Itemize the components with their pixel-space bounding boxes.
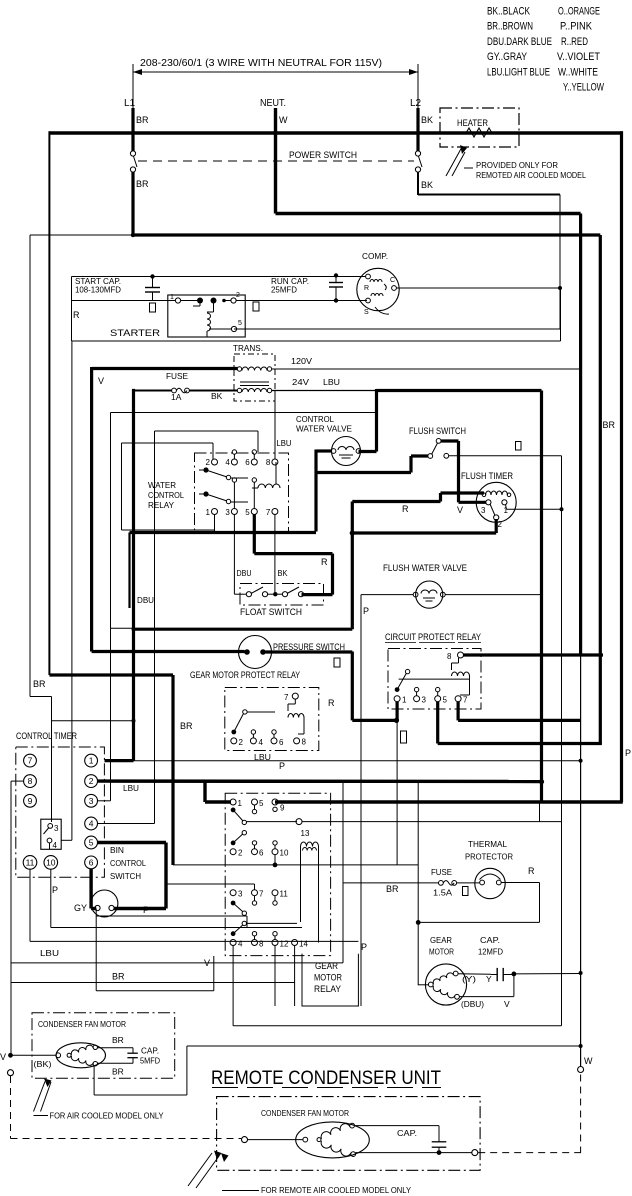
wire thin y720 left: [52, 720, 134, 722]
heater resistor: [458, 128, 500, 137]
svg-text:2: 2: [206, 458, 211, 467]
label CAP remote: [397, 1128, 417, 1138]
wire left border x51: [48, 131, 50, 675]
control timer terminals 1-6: [85, 754, 98, 869]
wire thin y412: [111, 413, 377, 629]
svg-text:CONTROL TIMER: CONTROL TIMER: [16, 731, 77, 742]
legend: wire color codes column 1: [487, 6, 552, 79]
wire O label left: [150, 303, 156, 312]
heater label: [457, 118, 488, 129]
remote condenser unit title: [211, 1067, 441, 1089]
svg-text:BR: BR: [33, 679, 46, 689]
label R timer: [402, 504, 409, 514]
wire y916 stub: [96, 916, 247, 928]
remote right terminal circle: [472, 1150, 478, 1156]
label (BK): [34, 1059, 52, 1069]
transformer secondary: [237, 388, 271, 392]
svg-text:9: 9: [28, 796, 33, 806]
svg-text:P..PINK: P..PINK: [560, 21, 593, 33]
label V bus: [98, 376, 104, 386]
svg-text:R: R: [402, 504, 409, 514]
wire fuse to LBU col: [134, 390, 238, 392]
wire motor Y wire: [458, 973, 491, 976]
label V timer: [457, 505, 463, 515]
wire y865: [173, 864, 418, 866]
circuit protect relay box: [388, 649, 481, 710]
wire flush timer motor feed: [352, 493, 484, 502]
svg-text:3: 3: [422, 696, 427, 705]
label LBU ct2: [123, 783, 139, 793]
flush water valve solenoid: [413, 581, 445, 608]
svg-text:MOTOR: MOTOR: [429, 947, 454, 957]
flush timer label: [461, 471, 513, 482]
float switch label: [240, 607, 302, 618]
remote note: [261, 1185, 411, 1195]
wire remote cfm left: [248, 1139, 303, 1141]
wire BK heater feed: [418, 195, 562, 329]
wire relay term3 drop DBU: [234, 515, 246, 595]
svg-text:FOR AIR COOLED MODEL ONLY: FOR AIR COOLED MODEL ONLY: [50, 1111, 164, 1121]
remote title underline: [212, 1087, 441, 1089]
wire thermal wires: [416, 883, 540, 925]
supply rating dimension line: [133, 58, 418, 110]
condenser fan motor (air cooled): [56, 1043, 106, 1068]
svg-text:1.5A: 1.5A: [433, 888, 452, 898]
svg-text:6: 6: [245, 458, 250, 467]
svg-text:3: 3: [89, 796, 94, 806]
svg-text:CIRCUIT PROTECT RELAY: CIRCUIT PROTECT RELAY: [385, 632, 482, 643]
wire ct2 thick LBU: [98, 779, 542, 783]
svg-text:13: 13: [301, 829, 310, 838]
node NEUT label: [260, 98, 286, 109]
gmr terminals 4 8 12 14: [230, 921, 308, 948]
condenser fan motor label: [38, 1019, 126, 1029]
wire valve left thick: [316, 450, 332, 532]
starter relay terminal 5: [231, 320, 242, 332]
fuse label: [166, 371, 188, 381]
starter relay terminal 1: [170, 294, 181, 303]
gear motor relay box: [225, 793, 330, 955]
svg-text:208-230/60/1 (3 WIRE WITH NEUT: 208-230/60/1 (3 WIRE WITH NEUTRAL FOR 11…: [140, 58, 382, 69]
transformer box: [234, 354, 275, 401]
wire BR to fuse: [343, 882, 439, 884]
wire valve right thick: [359, 450, 377, 453]
wire cap dot junction: [459, 972, 580, 997]
label P flush valve: [363, 606, 369, 616]
transformer label: [233, 343, 263, 353]
wire y990 stub: [96, 909, 214, 991]
svg-text:V: V: [504, 999, 510, 1009]
wire 24V right feed: [377, 389, 542, 452]
svg-text:2: 2: [236, 292, 240, 299]
gmr terminals 1 5 9: [230, 799, 285, 814]
fuse 1.5A label: [431, 867, 452, 877]
label P gmr right: [361, 942, 367, 952]
svg-text:3: 3: [238, 890, 243, 899]
svg-text:WATER: WATER: [148, 480, 176, 490]
label V line: [204, 958, 210, 968]
control timer label: [16, 731, 77, 742]
fuse 1A: [172, 388, 190, 393]
water control relay arm 1: [199, 467, 248, 479]
svg-text:MOTOR: MOTOR: [314, 973, 342, 984]
svg-text:CONDENSER FAN MOTOR: CONDENSER FAN MOTOR: [261, 1108, 349, 1118]
starter label: [110, 328, 160, 339]
power switch label: [289, 150, 357, 161]
svg-text:24V: 24V: [292, 377, 309, 387]
flush switch label: [409, 426, 466, 437]
svg-text:L2: L2: [410, 98, 422, 109]
svg-text:7: 7: [284, 693, 289, 702]
svg-text:7: 7: [28, 756, 33, 766]
svg-text:BR: BR: [603, 420, 616, 430]
label BK fuse: [211, 391, 223, 401]
label BR cfm top: [112, 1035, 124, 1045]
wire y1025 line: [232, 1025, 234, 1027]
svg-text:CONTROL: CONTROL: [148, 490, 184, 500]
starter relay terminal 2: [231, 292, 240, 303]
wire cpr1 drop: [396, 702, 399, 721]
svg-text:GY: GY: [74, 903, 87, 913]
svg-text:WATER VALVE: WATER VALVE: [296, 424, 352, 434]
wire flush timer c1: [506, 505, 562, 510]
circuit protect relay coil: [452, 658, 470, 695]
svg-text:BR: BR: [136, 115, 149, 125]
wire gmr 13 line: [302, 821, 562, 823]
wire cfm top: [98, 1047, 134, 1049]
float switch contacts: [246, 587, 303, 597]
svg-text:R: R: [328, 698, 335, 708]
wire L1 drop: [131, 108, 134, 151]
svg-text:RELAY: RELAY: [314, 984, 342, 995]
svg-text:REMOTE CONDENSER UNIT: REMOTE CONDENSER UNIT: [211, 1067, 441, 1089]
svg-text:5: 5: [238, 320, 242, 327]
pressure switch label: [273, 642, 345, 653]
flush switch contacts: [428, 439, 449, 459]
svg-text:W: W: [279, 115, 288, 125]
water control relay box: [195, 453, 289, 532]
wire x418 riser: [417, 782, 419, 986]
wire W right column x621: [620, 131, 623, 802]
svg-text:7: 7: [266, 508, 271, 517]
svg-text:R: R: [321, 557, 328, 567]
label O cpr: [401, 731, 407, 743]
label 1A: [171, 392, 182, 402]
label BR gmpr left: [180, 721, 193, 731]
svg-text:THERMAL: THERMAL: [468, 839, 507, 849]
svg-text:R..RED: R..RED: [561, 36, 588, 48]
float switch box: [240, 584, 324, 606]
wire ct5 thick: [98, 843, 167, 909]
air cooled note arrow: [34, 1079, 52, 1116]
wire motor left: [418, 984, 428, 986]
svg-text:V: V: [457, 505, 463, 515]
svg-text:O..ORANGE: O..ORANGE: [558, 6, 600, 18]
thermal protector: [475, 868, 505, 898]
water control relay coil: [252, 462, 280, 488]
gmr arm1: [231, 808, 297, 825]
wire V dot left: [8, 1053, 56, 1058]
wire cpr8 to BR: [464, 653, 604, 656]
svg-text:120V: 120V: [291, 356, 312, 366]
svg-text:(BK): (BK): [34, 1059, 52, 1069]
svg-text:5MFD: 5MFD: [140, 1056, 160, 1066]
label P right edge: [625, 748, 631, 758]
bin control switch label: [110, 845, 146, 881]
gmr terminals 2 6 10: [230, 831, 289, 858]
run capacitor label: [271, 276, 309, 295]
svg-text:6: 6: [89, 858, 94, 868]
wire R riser x352: [350, 502, 355, 630]
gmpr coil: [288, 699, 304, 734]
label 120V: [291, 356, 312, 366]
wire flush switch left thick: [316, 456, 428, 473]
label W bottom: [584, 1056, 593, 1066]
circuit protect relay terminal 8: [447, 652, 464, 661]
wire ct7 riser x72: [61, 341, 72, 840]
svg-text:REMOTED AIR COOLED MODEL: REMOTED AIR COOLED MODEL: [476, 170, 586, 180]
label 24V: [292, 377, 309, 387]
label (DBU): [461, 999, 484, 1009]
start capacitor C1: [145, 274, 160, 300]
label R floatswitch: [321, 557, 328, 567]
svg-text:3: 3: [225, 508, 230, 517]
svg-text:DBU: DBU: [237, 568, 252, 578]
svg-text:SWITCH: SWITCH: [110, 871, 141, 881]
wire LBU stub below 9line: [539, 802, 541, 822]
svg-text:GY..GRAY: GY..GRAY: [487, 51, 528, 63]
svg-text:9: 9: [280, 804, 285, 813]
gear motor label: [429, 935, 454, 957]
wire comp S line: [234, 302, 560, 329]
wire starter box right: [560, 277, 562, 342]
wire ct6 thick: [91, 869, 96, 909]
control water valve label: [296, 414, 352, 434]
svg-text:TRANS.: TRANS.: [233, 343, 263, 353]
circuit protect relay arm: [395, 669, 470, 692]
svg-text:108-130MFD: 108-130MFD: [75, 285, 121, 295]
wire starter main y300: [72, 300, 368, 302]
svg-text:10: 10: [46, 858, 56, 868]
wire L1 BR bus y235: [131, 233, 600, 236]
svg-text:BK: BK: [211, 391, 223, 401]
label BR y884: [386, 884, 399, 894]
V bus box: [92, 367, 238, 652]
label Y: [486, 974, 492, 984]
svg-text:LBU: LBU: [323, 377, 340, 387]
svg-text:4: 4: [259, 738, 264, 747]
starter relay box: [168, 295, 245, 337]
node L1 label: [124, 98, 136, 109]
water control relay label: [148, 480, 184, 510]
wire gmr4 drop: [233, 946, 561, 1026]
svg-text:12MFD: 12MFD: [478, 947, 503, 957]
label LBU gmpr: [254, 752, 271, 762]
wire thin x30 left: [30, 235, 52, 822]
svg-text:NEUT.: NEUT.: [260, 98, 286, 109]
run capacitor C2: [329, 273, 343, 302]
svg-text:7: 7: [463, 696, 468, 705]
label GY: [74, 903, 87, 913]
svg-text:FUSE: FUSE: [166, 371, 188, 381]
terminal circle left: [8, 1070, 14, 1076]
svg-text:2: 2: [238, 849, 243, 858]
svg-text:11: 11: [280, 890, 289, 899]
gmr terminal 13: [296, 819, 310, 838]
wire thin y431: [155, 431, 259, 824]
remote condenser unit box: [217, 1097, 481, 1171]
svg-text:1A: 1A: [171, 392, 182, 402]
wire ct11 drop: [30, 869, 358, 942]
wire BR bottom line: [11, 982, 295, 984]
svg-text:10: 10: [280, 849, 289, 858]
wire thin y235 left: [30, 233, 135, 237]
control timer cam contacts: [44, 824, 60, 851]
compressor label: [362, 251, 388, 261]
wire thin x111 lower: [110, 628, 112, 801]
label P ct: [52, 885, 58, 895]
label LBU relay8: [277, 438, 292, 448]
wire flush valve left P: [361, 595, 413, 1006]
svg-text:8: 8: [302, 738, 307, 747]
label BR cfm bottom: [112, 1067, 124, 1077]
gmr coil: [301, 842, 319, 943]
svg-text:R: R: [528, 866, 535, 876]
wire BR right column x600: [599, 235, 602, 744]
svg-text:5: 5: [89, 838, 94, 848]
svg-text:4: 4: [53, 841, 58, 850]
label O pressure: [334, 658, 340, 667]
svg-text:V: V: [0, 1052, 6, 1062]
wire ct8 left: [11, 781, 24, 1055]
wire remote cfm bottom: [356, 1150, 472, 1155]
label BK float: [278, 568, 288, 578]
svg-text:P: P: [625, 748, 631, 758]
svg-text:7: 7: [259, 890, 264, 899]
fuse 1.5A: [439, 881, 457, 886]
remote cfm terminal circle: [242, 1137, 248, 1143]
svg-text:L1: L1: [124, 98, 136, 109]
svg-text:P: P: [143, 905, 149, 915]
label BR bottom: [112, 972, 125, 982]
svg-text:BR..BROWN: BR..BROWN: [487, 21, 533, 33]
svg-text:BR: BR: [112, 1035, 124, 1045]
wire gmr 1 feed: [205, 782, 231, 803]
wire R label starter: [73, 310, 80, 320]
svg-text:BK: BK: [278, 568, 288, 578]
wire ct4: [98, 823, 155, 825]
wire W neutral bus y133: [49, 131, 623, 136]
start capacitor label: [75, 276, 121, 295]
svg-text:V: V: [98, 376, 104, 386]
label LBU bottom: [40, 948, 59, 958]
dashed V drop: [11, 1076, 242, 1139]
svg-text:DBU: DBU: [137, 595, 154, 605]
svg-text:4: 4: [238, 940, 243, 949]
remote note arrows: [188, 1151, 259, 1191]
label DBU stub: [137, 595, 154, 605]
svg-text:W: W: [584, 1056, 593, 1066]
svg-text:BK: BK: [421, 115, 433, 125]
wire flush timer c2: [352, 519, 496, 533]
wire 24V LBU: [272, 390, 377, 392]
svg-text:8: 8: [259, 940, 264, 949]
transformer primary: [237, 367, 271, 371]
svg-text:BK: BK: [421, 180, 433, 190]
svg-text:V: V: [204, 958, 210, 968]
wire NEUT W label: [279, 115, 288, 125]
svg-text:25MFD: 25MFD: [271, 285, 297, 295]
label R thermal: [528, 866, 535, 876]
svg-text:3: 3: [481, 506, 486, 515]
wire remote cfm top: [355, 1125, 440, 1127]
wire flush timer c3: [459, 501, 487, 504]
svg-text:V..VIOLET: V..VIOLET: [557, 51, 600, 63]
starter relay contacts: [181, 298, 232, 313]
dashed remote right: [478, 1152, 581, 1154]
condenser fan motor box: [32, 1013, 175, 1078]
cap 5mfd: [127, 1048, 137, 1064]
gmr text frame: [302, 954, 358, 1006]
svg-text:P: P: [52, 885, 58, 895]
gear motor protect relay box: [225, 688, 319, 751]
svg-text:GEAR: GEAR: [430, 935, 452, 945]
wire L1 BR below switch: [133, 172, 149, 237]
wire V line: [11, 962, 343, 964]
control timer terminals 11 10: [23, 856, 57, 870]
heater note text: [476, 160, 586, 180]
wire thin y443: [122, 443, 215, 530]
wire NEUT drop: [274, 108, 277, 214]
flush water valve label: [383, 563, 467, 574]
wire R line y554: [254, 554, 332, 595]
wire O line flush: [449, 456, 564, 1026]
label V left: [0, 1052, 6, 1062]
pressure switch: [239, 636, 272, 669]
wire cfm bottom: [94, 1046, 580, 1095]
svg-text:1: 1: [238, 799, 243, 808]
svg-text:Y: Y: [486, 974, 492, 984]
heater box: [440, 108, 519, 147]
water control relay aux contacts top: [232, 450, 256, 459]
label cap 5mfd: [140, 1046, 160, 1066]
svg-text:FLUSH SWITCH: FLUSH SWITCH: [409, 426, 466, 437]
svg-text:6: 6: [279, 738, 284, 747]
wire relay term5 R: [253, 515, 256, 554]
wire LBU y629 bus: [134, 628, 353, 631]
svg-text:COMP.: COMP.: [362, 251, 388, 261]
wire L1 BR label: [136, 115, 149, 125]
wire flush switch right thick: [441, 441, 459, 502]
svg-text:1: 1: [89, 756, 94, 766]
wire BR bus: [49, 675, 173, 865]
svg-text:HEATER: HEATER: [457, 118, 488, 129]
gmr terminals 3 7 11: [230, 890, 288, 916]
heater note arrow: [446, 145, 473, 176]
control water valve solenoid: [331, 437, 361, 466]
water control relay terminals 2 4 6 8: [206, 458, 278, 467]
svg-text:RELAY: RELAY: [148, 500, 174, 510]
wire start cap top: [72, 276, 153, 278]
label (Y): [462, 974, 476, 984]
transformer core: [240, 382, 269, 386]
svg-text:GEAR MOTOR PROTECT RELAY: GEAR MOTOR PROTECT RELAY: [190, 670, 300, 681]
wire comp R feed: [368, 276, 370, 278]
label BR right column: [603, 420, 616, 430]
gear motor: [425, 964, 466, 1005]
svg-text:BR: BR: [180, 721, 193, 731]
air cooled note: [50, 1111, 164, 1121]
